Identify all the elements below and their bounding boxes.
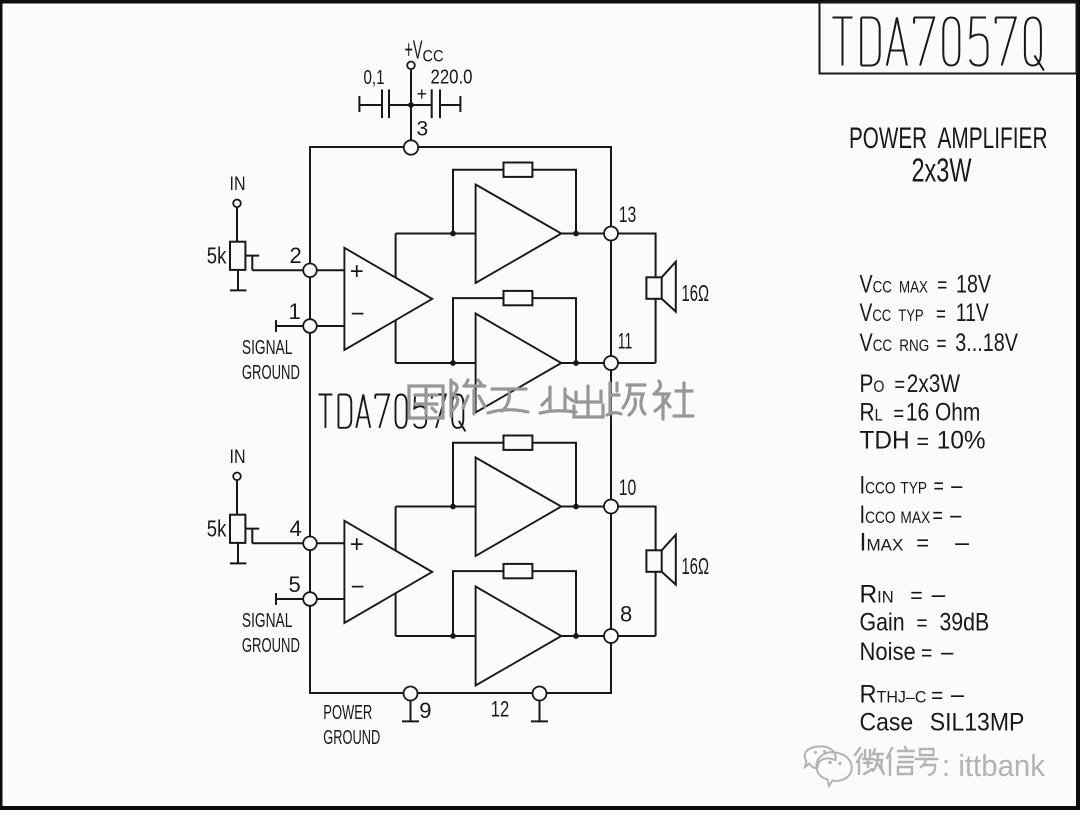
- svg-text:+: +: [350, 258, 364, 285]
- wire output bus vertical B: [395, 507, 397, 637]
- wechat text xin: [887, 747, 914, 775]
- svg-text:11: 11: [618, 328, 633, 353]
- wire sgnd-pin A: [276, 325, 310, 327]
- feedback loop 2 A: [453, 298, 576, 363]
- speaker LS A body: [646, 277, 661, 299]
- pot wiper B: [245, 529, 259, 544]
- svg-text:PO=2x3W: PO=2x3W: [860, 369, 961, 397]
- svg-text:+: +: [350, 531, 364, 558]
- speaker LS B cone: [662, 535, 676, 585]
- resistor R2 A: [504, 291, 533, 305]
- watermark char she: [654, 381, 693, 419]
- junction dot buffer1 in B: [450, 504, 456, 510]
- svg-text:Gain=39dB: Gain=39dB: [860, 608, 990, 636]
- junction dot buffer2 in B: [450, 633, 456, 639]
- wire pin-opamp- B: [317, 598, 345, 600]
- pin 9: [404, 687, 418, 701]
- svg-text:220.0: 220.0: [431, 67, 473, 89]
- title text TDA7057Q: [833, 18, 1044, 71]
- terminal tick right: [459, 96, 461, 112]
- wire pot-pin A: [252, 269, 310, 271]
- pin 12: [533, 687, 547, 701]
- title box: [820, 2, 1077, 74]
- op-amp input stage B: [344, 521, 432, 623]
- svg-text:10: 10: [619, 475, 637, 500]
- svg-text:ICCOMAX=–: ICCOMAX=–: [860, 500, 962, 529]
- wire pin-opamp+ A: [317, 269, 345, 271]
- svg-text:9: 9: [419, 698, 431, 723]
- svg-text:: ittbank: : ittbank: [942, 748, 1045, 783]
- border frame bottom: [0, 806, 1080, 810]
- op-amp input stage A: [344, 248, 432, 350]
- watermark char guo: [409, 386, 443, 418]
- pot ground bar B: [230, 562, 247, 564]
- junction dot buffer1 in A: [450, 231, 456, 237]
- junction dot Vcc bus: [408, 102, 414, 108]
- pin 10: [604, 500, 618, 514]
- wire cap bus: [359, 104, 460, 106]
- speaker LS A cone: [662, 262, 676, 312]
- buffer amp 1 A: [476, 185, 562, 284]
- border frame right: [1076, 0, 1080, 810]
- terminal IN A: [233, 200, 241, 208]
- wechat text wei: [855, 748, 884, 774]
- wechat text hao: [916, 749, 938, 775]
- svg-text:13: 13: [619, 202, 637, 227]
- feedback loop 1 A: [453, 170, 576, 234]
- ground stub pin9: [402, 701, 419, 722]
- wire output bus vertical A: [395, 234, 397, 364]
- feedback loop 2 B: [453, 571, 576, 636]
- svg-text:16Ω: 16Ω: [682, 280, 710, 306]
- junction dot buffer2 out B: [573, 633, 579, 639]
- terminal IN B: [233, 473, 241, 481]
- wire pin10-speaker B: [618, 507, 656, 551]
- wechat logo: [805, 746, 852, 786]
- resistor R1 B: [504, 436, 533, 450]
- pot ground bar A: [230, 289, 247, 291]
- svg-text:VCCRNG=3...18V: VCCRNG=3...18V: [860, 329, 1018, 357]
- junction dot buffer1 out B: [573, 504, 579, 510]
- wire pin-opamp+ B: [317, 542, 345, 544]
- potentiometer 5k A: [230, 242, 245, 270]
- svg-text:RTHJ–C=–: RTHJ–C=–: [860, 681, 965, 709]
- svg-text:+: +: [417, 84, 428, 104]
- svg-text:5: 5: [289, 572, 301, 597]
- wire sgnd-pin B: [276, 598, 310, 600]
- wire buffer1 out A: [561, 233, 604, 235]
- wire buffer1 input line B: [396, 506, 476, 508]
- svg-text:GROUND: GROUND: [323, 727, 380, 749]
- svg-text:12: 12: [491, 696, 510, 721]
- junction dot buffer1 out A: [573, 231, 579, 237]
- svg-text:VCCTYP=11V: VCCTYP=11V: [860, 299, 989, 327]
- pin 4: [303, 537, 317, 551]
- wire buffer2 out B: [561, 635, 604, 637]
- wire speaker-pin8 B: [618, 572, 656, 636]
- svg-text:SIGNAL: SIGNAL: [242, 337, 293, 359]
- wire pin-opamp- A: [317, 325, 345, 327]
- svg-text:RL=16 Ohm: RL=16 Ohm: [860, 398, 981, 426]
- watermark char ji: [451, 380, 485, 416]
- svg-text:8: 8: [620, 601, 632, 626]
- wire speaker-pin11 A: [618, 299, 656, 363]
- capacitor C2 220.0 plates: [432, 89, 440, 118]
- signal ground tick A: [275, 320, 277, 332]
- terminal tick left: [358, 96, 360, 112]
- speaker LS B body: [646, 550, 661, 572]
- svg-text:16Ω: 16Ω: [682, 553, 710, 579]
- svg-text:+VCC: +VCC: [405, 35, 444, 66]
- svg-text:IN: IN: [230, 174, 246, 195]
- svg-text:POWER: POWER: [323, 702, 372, 724]
- junction dot buffer2 out A: [573, 360, 579, 366]
- pin 13: [604, 227, 618, 241]
- svg-text:4: 4: [290, 516, 302, 541]
- wire buffer2 out A: [561, 362, 604, 364]
- IC label TDA7057Q: [319, 395, 466, 432]
- svg-text:POWER: POWER: [849, 122, 927, 155]
- svg-text:SIGNAL: SIGNAL: [242, 610, 293, 632]
- svg-text:−: −: [351, 574, 365, 601]
- svg-text:RIN=–: RIN=–: [860, 581, 946, 608]
- pin 8: [604, 629, 618, 643]
- potentiometer 5k B: [230, 515, 245, 543]
- svg-text:IN: IN: [230, 447, 246, 468]
- svg-text:−: −: [351, 301, 365, 328]
- svg-text:1: 1: [289, 299, 301, 324]
- pin 11: [604, 356, 618, 370]
- svg-text:Noise=–: Noise=–: [860, 638, 955, 666]
- svg-text:AMPLIFIER: AMPLIFIER: [938, 122, 1048, 155]
- wire buffer1 out B: [561, 506, 604, 508]
- pin 5: [303, 592, 317, 606]
- svg-text:2x3W: 2x3W: [912, 152, 973, 189]
- Vcc terminal: [407, 62, 415, 70]
- border frame left: [0, 0, 3, 810]
- svg-text:5k: 5k: [207, 516, 227, 542]
- svg-text:ICCOTYP=–: ICCOTYP=–: [860, 470, 963, 499]
- watermark char ban: [607, 383, 645, 415]
- svg-text:TDH=10%: TDH=10%: [860, 427, 986, 454]
- buffer amp 1 B: [476, 458, 562, 557]
- svg-text:2: 2: [290, 243, 302, 268]
- pot ground lead B: [237, 543, 239, 563]
- watermark char gong: [488, 389, 528, 413]
- svg-text:GROUND: GROUND: [242, 635, 300, 657]
- wire buffer1 input line A: [396, 233, 476, 235]
- svg-text:5k: 5k: [207, 243, 227, 269]
- pin 3: [404, 140, 418, 154]
- pot wiper A: [245, 256, 259, 271]
- resistor R2 B: [504, 564, 533, 578]
- feedback loop 1 B: [453, 443, 576, 507]
- pin 2: [303, 264, 317, 278]
- svg-text:GROUND: GROUND: [242, 362, 300, 384]
- wire buffer2 input line B: [396, 635, 476, 637]
- pot ground lead A: [237, 270, 239, 290]
- wire Vcc vertical: [410, 69, 412, 141]
- border frame top: [0, 0, 1080, 4]
- wire pin13-speaker A: [618, 234, 656, 278]
- resistor R1 A: [504, 163, 533, 177]
- wire IN-pot A: [236, 207, 238, 242]
- IC box outline: [310, 147, 611, 693]
- wire buffer2 input line A: [396, 362, 476, 364]
- junction dot buffer2 in A: [450, 360, 456, 366]
- svg-text:IMAX=–: IMAX=–: [860, 529, 970, 557]
- wire pot-pin B: [252, 542, 310, 544]
- buffer amp 2 B: [476, 587, 562, 686]
- svg-text:3: 3: [417, 118, 429, 141]
- buffer amp 2 A: [476, 314, 562, 413]
- ground stub pin12: [531, 701, 548, 722]
- watermark char ye: [540, 387, 576, 413]
- svg-text:VCCMAX=18V: VCCMAX=18V: [860, 270, 992, 298]
- capacitor C1 0,1 plates: [382, 89, 389, 118]
- signal ground tick B: [275, 593, 277, 605]
- wire IN-pot B: [236, 480, 238, 515]
- pin 1: [303, 319, 317, 333]
- svg-text:0,1: 0,1: [364, 67, 385, 89]
- svg-text:CaseSIL13MP: CaseSIL13MP: [860, 709, 1025, 737]
- watermark char chu: [574, 386, 603, 417]
